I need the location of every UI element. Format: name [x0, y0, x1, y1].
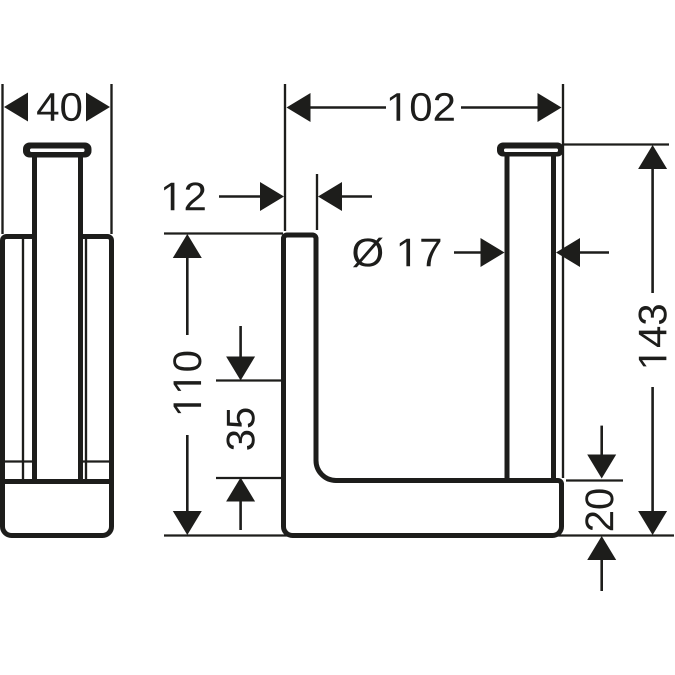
dim 102: left dim line	[309, 106, 386, 109]
dim 20: top extension line	[566, 479, 623, 481]
dim 12: left leader line	[219, 195, 262, 198]
dim 20: lower dim line	[600, 560, 603, 591]
dim 102: right extension line	[562, 84, 564, 478]
dim diameter 17: leader line	[454, 251, 482, 254]
dim 110: bottom extension line	[164, 534, 674, 536]
dim 143: bottom arrow	[638, 511, 667, 535]
dim 143: upper dim line	[651, 169, 654, 293]
dim 35: lower arrow	[226, 478, 255, 502]
side view: thin inner edge right	[85, 239, 87, 479]
side view: cap body	[23, 143, 92, 158]
dim 110: bottom arrow	[173, 511, 202, 535]
dim 110: top arrow	[173, 234, 202, 258]
dim 35: upper dim line	[239, 326, 242, 357]
dim 40: right extension line	[110, 84, 112, 234]
side view: rod right edge	[78, 154, 83, 481]
dim 143: top extension line	[564, 143, 669, 145]
dim 102: right dim line	[461, 106, 539, 109]
dim diameter 17: right leader line	[580, 251, 609, 254]
dim 102: left arrow	[287, 93, 311, 122]
side view: base top edge	[3, 479, 112, 484]
dim 12: left arrow	[260, 182, 284, 211]
front view: cap body	[497, 143, 564, 157]
dim diameter 17: right arrow	[556, 238, 580, 267]
dim 40: right arrow	[86, 93, 110, 122]
dim 12: label	[164, 182, 205, 210]
dim 40: label	[37, 93, 81, 121]
dim 35: lower extension line	[216, 477, 281, 479]
dim 12: right leader line	[342, 195, 372, 198]
dim diameter 17: label	[353, 238, 440, 268]
dim 143: lower dim line	[651, 387, 654, 512]
dim 35: upper arrow	[226, 357, 255, 381]
dim 40: left arrow	[4, 93, 28, 122]
dim diameter 17: left arrow	[481, 238, 505, 267]
dim 20: upper dim line	[600, 426, 603, 455]
side view: rod left edge	[32, 154, 37, 481]
dim 20: label	[585, 489, 613, 530]
front view: rod right edge	[551, 154, 556, 478]
dim 143: top arrow	[638, 145, 667, 169]
dim 110: lower dim line	[186, 435, 189, 512]
dim 12: right arrow	[318, 182, 342, 211]
dim 110: top extension line	[164, 232, 283, 234]
front view: cap slot	[504, 149, 558, 153]
dim 35: label	[226, 408, 254, 449]
side view: thin inner edge left	[22, 239, 24, 479]
dim 102: label	[390, 93, 454, 121]
front view: L-bracket outline	[284, 235, 562, 536]
dim 40: left extension line	[1, 84, 3, 234]
front view: rod left edge	[505, 154, 510, 478]
side view: thin shelf line right	[83, 460, 109, 462]
dim 20: upper arrow	[587, 455, 616, 479]
dim 35: lower dim line	[239, 502, 242, 531]
dim 110: upper dim line	[186, 258, 189, 335]
dim 102: right arrow	[538, 93, 562, 122]
dim 35: upper extension line	[216, 379, 281, 381]
dim 20: lower arrow	[587, 536, 616, 560]
side view: outer body outline	[3, 237, 112, 536]
side view: thin shelf line left	[5, 460, 32, 462]
dim 102: left extension line	[284, 84, 286, 231]
dim 143: label	[638, 305, 666, 366]
dim 110: label	[173, 352, 201, 413]
side view: rod gap whiteout	[37, 231, 78, 242]
dim 12: right extension line	[316, 174, 318, 230]
side view: cap slot	[30, 149, 85, 153]
